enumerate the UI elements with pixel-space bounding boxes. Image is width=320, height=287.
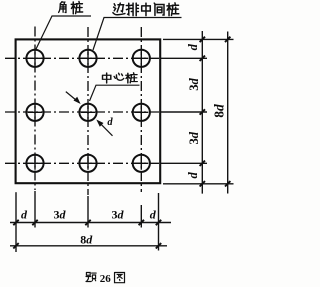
- svg-text:8d: 8d: [212, 104, 227, 118]
- svg-text:d: d: [150, 208, 157, 222]
- svg-text:3d: 3d: [187, 131, 201, 144]
- svg-text:d: d: [186, 43, 200, 50]
- svg-text:d: d: [21, 208, 28, 222]
- svg-text:3d: 3d: [54, 208, 67, 222]
- svg-text:d: d: [186, 172, 200, 179]
- svg-text:d: d: [107, 117, 113, 128]
- svg-text:3d: 3d: [187, 78, 201, 91]
- svg-text:26: 26: [100, 273, 112, 285]
- svg-text:3d: 3d: [112, 208, 125, 222]
- svg-text:8d: 8d: [80, 233, 93, 247]
